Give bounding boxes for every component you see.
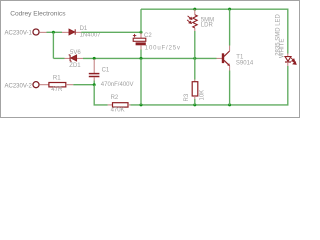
wire bottom rail — [131, 66, 288, 105]
wire top rail — [141, 9, 288, 53]
svg-text:Codrey Electronics: Codrey Electronics — [10, 10, 66, 17]
svg-text:5V6: 5V6 — [70, 50, 81, 56]
resistor R1 — [49, 83, 66, 87]
svg-text:LDR: LDR — [201, 23, 214, 29]
frame border — [1, 1, 300, 118]
LDR pin bottom — [194, 28, 196, 31]
transistor T1 collector pin — [229, 46, 231, 52]
wire emitter to bottom rail — [229, 71, 231, 105]
resistor R2 — [113, 103, 129, 107]
LDR pin top — [194, 9, 196, 15]
wire R3 to bottom rail — [194, 99, 196, 105]
wire base node down to R3 — [194, 58, 196, 79]
node junction C1 bottom — [93, 83, 96, 86]
capacitor C2 top plate — [133, 38, 146, 41]
resistor R2 left pin — [108, 104, 113, 106]
node junction emitter bottom — [228, 103, 231, 106]
capacitor C1 plates — [89, 74, 100, 77]
svg-text:R3: R3 — [184, 93, 190, 101]
node junction R3 top — [193, 57, 196, 60]
diode D1 — [69, 29, 75, 34]
LED D2 — [285, 57, 291, 62]
zener ZD1 pins — [65, 57, 70, 59]
transistor T1 base pin — [217, 57, 223, 59]
wire junction down to bottom rail — [94, 85, 108, 105]
svg-text:R1: R1 — [53, 76, 61, 82]
svg-text:470nF/400V: 470nF/400V — [101, 82, 134, 88]
capacitor C2 pin top — [140, 33, 142, 39]
transistor T1 — [222, 51, 230, 66]
svg-text:S9014: S9014 — [236, 61, 254, 67]
wire vertical from junction down to zener row — [52, 32, 54, 58]
node junction at C2 top — [140, 31, 143, 34]
pin of terminal 2 to R1 — [40, 84, 49, 86]
svg-text:D1: D1 — [80, 26, 88, 32]
terminal AC230V-1 — [33, 29, 39, 35]
wire top from terminal to D1 — [47, 31, 63, 33]
wire corner to zener — [53, 57, 64, 59]
zener ZD1 — [69, 55, 77, 62]
capacitor C1 pin bottom — [93, 77, 95, 80]
resistor R2 right pin — [128, 104, 131, 106]
node junction R3 bottom — [193, 103, 196, 106]
wire R1 to junction — [73, 84, 94, 86]
LDR arrows — [187, 16, 192, 24]
wire riser up from C2 junction — [140, 9, 142, 32]
resistor R3 — [192, 82, 198, 96]
capacitor C2 pin bottom — [140, 45, 142, 49]
svg-text:C1: C1 — [102, 67, 110, 73]
svg-text:1N4007: 1N4007 — [80, 33, 102, 39]
svg-text:WHITE: WHITE — [279, 39, 285, 58]
capacitor C2 bottom plate — [136, 42, 146, 45]
transistor T1 emitter pin — [229, 66, 231, 71]
svg-text:470K: 470K — [111, 108, 125, 114]
svg-text:ZD1: ZD1 — [69, 63, 81, 69]
resistor R3 pin top — [194, 80, 196, 82]
LED pin top — [287, 54, 289, 57]
resistor R3 pin bottom — [194, 96, 196, 99]
node junction C1 top — [93, 57, 96, 60]
wire C2 bottom to zener row — [140, 50, 142, 59]
terminal AC230V-2 — [33, 82, 39, 88]
svg-text:AC230V-2: AC230V-2 — [5, 83, 33, 89]
wire top D1 to C2 junction — [81, 31, 141, 33]
wire vertical x140 between rows — [140, 58, 142, 105]
svg-text:R2: R2 — [111, 95, 119, 101]
wire zener row segment — [83, 57, 217, 59]
svg-text:100uF/25v: 100uF/25v — [145, 46, 181, 52]
node junction collector on top rail — [228, 8, 231, 11]
capacitor C1 pin top — [93, 59, 95, 73]
wire collector riser — [229, 9, 231, 45]
svg-text:47R: 47R — [51, 87, 63, 93]
wire LDR to base node — [194, 31, 196, 58]
node junction top-left — [52, 31, 55, 34]
LED arrows — [291, 58, 296, 65]
wire C1 bottom to junction — [93, 81, 95, 85]
svg-text:C2: C2 — [144, 33, 152, 39]
resistor R1 right pin — [66, 84, 74, 86]
node junction bottom x140 — [140, 103, 143, 106]
LED pin bottom — [287, 62, 289, 66]
plus sign of C2 — [133, 34, 136, 37]
svg-text:10K: 10K — [199, 90, 205, 101]
diode D1 pins — [62, 31, 69, 33]
node junction C2 bottom — [140, 57, 143, 60]
pin of terminal 1 — [40, 31, 47, 33]
svg-text:AC230V-1: AC230V-1 — [5, 31, 33, 37]
LDR junction on top rail — [193, 8, 196, 11]
LDR zigzag — [193, 15, 197, 28]
